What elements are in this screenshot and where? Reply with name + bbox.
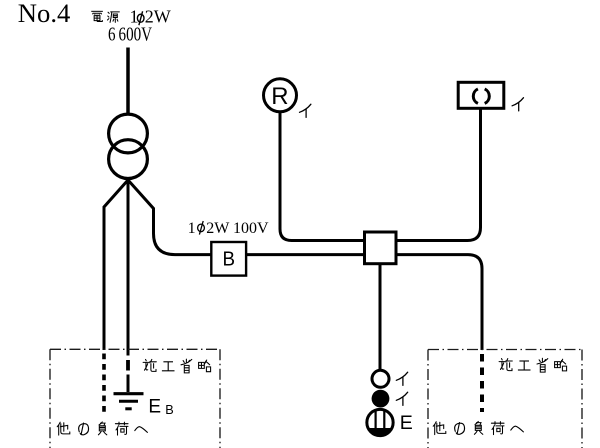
svg-text:No.4: No.4	[18, 0, 71, 28]
ground symbol E_B	[114, 394, 144, 409]
wire: joint box to other loads right	[396, 255, 482, 350]
switch (filled circle)	[372, 390, 390, 408]
transformer T primary coil	[109, 114, 148, 153]
wire: left conductor dashed inside omitted box	[102, 354, 106, 414]
label to-other-loads left	[57, 422, 70, 435]
label construction-omitted right	[499, 359, 512, 371]
pendant lamp (open circle)	[372, 370, 389, 387]
label 電源	[91, 11, 103, 21]
label construction-omitted left	[143, 359, 156, 371]
svg-text:6 600V: 6 600V	[108, 25, 152, 46]
label to-other-loads right	[433, 422, 446, 435]
transformer T secondary coil	[109, 140, 148, 179]
label i beside ceiling	[512, 98, 523, 111]
hook ceiling body (square type)	[458, 82, 504, 108]
hook ceiling contact arcs	[473, 89, 489, 104]
wire: joint box down to switch chain	[379, 264, 382, 370]
wire: grounding conductor from transformer	[127, 180, 130, 356]
svg-text:E: E	[148, 397, 161, 418]
breaker B box	[211, 242, 246, 276]
wire: grounding conductor lower solid segment	[127, 375, 130, 393]
label i beside pendant	[396, 372, 407, 385]
wire: receptacle drop to joint box	[280, 111, 364, 241]
socket outlet with earth	[367, 409, 393, 435]
svg-text:B: B	[223, 249, 236, 271]
wire: left secondary conductor to omitted section	[104, 180, 128, 350]
right omitted-section box (dash-dot)	[428, 350, 582, 448]
wire: breaker output to joint box	[247, 253, 365, 256]
wire: joint box to ceiling hook	[396, 109, 481, 241]
label i beside switch	[396, 392, 407, 405]
wire: right secondary conductor to breaker	[128, 180, 212, 255]
joint box	[365, 232, 397, 264]
svg-text:2W 100V: 2W 100V	[206, 220, 269, 237]
wire: high-voltage source drop	[126, 48, 130, 114]
label i beside receptacle	[300, 104, 311, 117]
svg-text:1: 1	[188, 220, 196, 237]
wire: dashed conductor in right omitted box	[480, 354, 484, 412]
left omitted-section box (dash-dot)	[50, 349, 220, 448]
svg-text:2W: 2W	[145, 7, 171, 27]
svg-text:R: R	[271, 83, 288, 110]
svg-text:B: B	[165, 403, 173, 417]
wire: grounding conductor dashed segment	[126, 360, 130, 371]
svg-text:E: E	[400, 412, 413, 434]
lamp receptacle R	[264, 79, 297, 112]
